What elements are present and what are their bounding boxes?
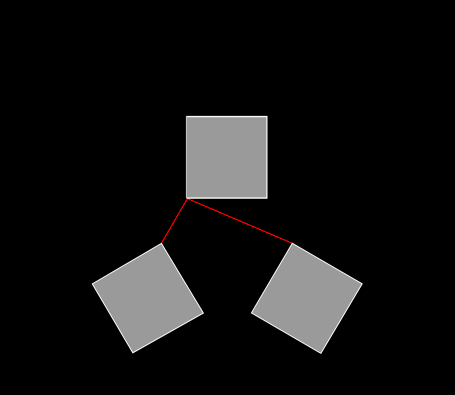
node C: bottom-right rotated square body (251, 243, 362, 353)
wire: red joint link from pivot to right box top corner (187, 199, 292, 244)
wire: red joint link from pivot to left box top corner (161, 199, 187, 244)
node B: bottom-left rotated square body (92, 243, 203, 352)
node A: top square body (186, 116, 267, 198)
